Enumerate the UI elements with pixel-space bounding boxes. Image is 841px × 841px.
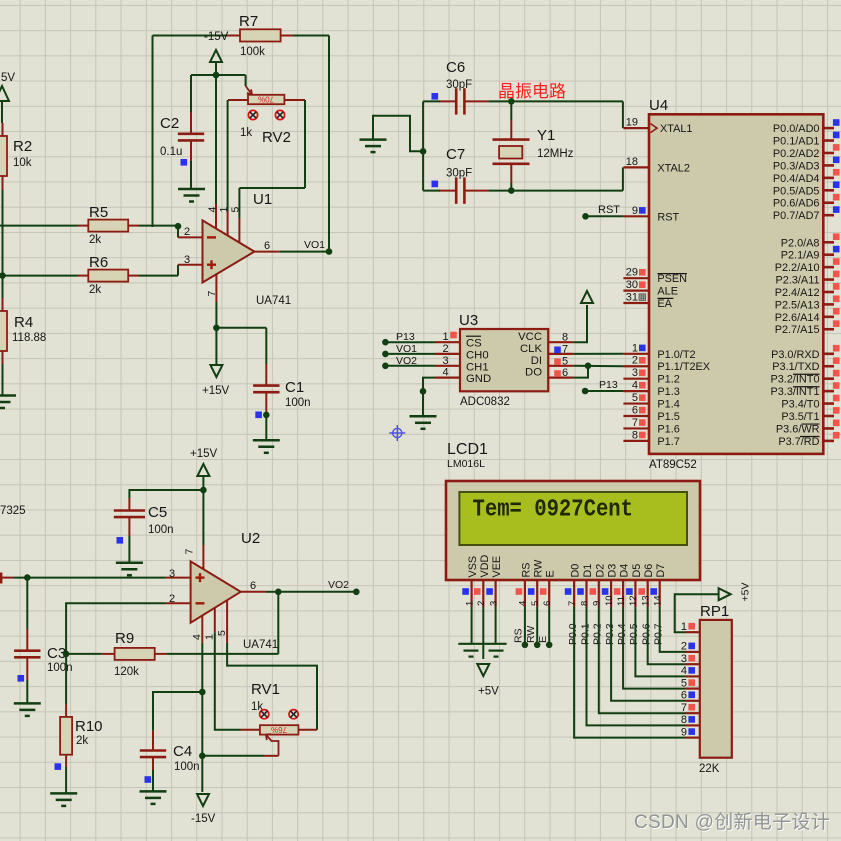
resistor R7 100k [227,29,293,41]
U3 pin 7 CLK [520,343,573,356]
svg-text:31: 31 [626,292,638,304]
svg-text:RST: RST [598,204,620,216]
svg-text:+15V: +15V [202,385,230,397]
svg-text:RP1: RP1 [700,603,729,620]
svg-text:2: 2 [632,355,638,367]
svg-text:3: 3 [681,653,687,665]
svg-text:P1.2: P1.2 [657,374,679,386]
svg-text:R5: R5 [89,204,108,221]
svg-text:E: E [545,570,557,577]
U4 pin P0.7/AD7 [773,206,840,222]
svg-text:4: 4 [681,665,687,677]
wire VO2 out [278,591,356,593]
wire RP1 pin1 to +5V [675,594,719,632]
MCU U4 AT89C52 body [649,114,823,454]
svg-text:4: 4 [207,207,219,213]
svg-text:D7: D7 [655,564,667,578]
svg-text:VEE: VEE [491,556,503,578]
wire wiper to pin4 net [202,755,264,757]
svg-text:70%: 70% [258,94,274,103]
svg-text:P0.4: P0.4 [616,623,628,645]
svg-text:P3.7/RD: P3.7/RD [778,436,819,448]
svg-text:CH1: CH1 [466,361,489,373]
svg-text:1: 1 [204,634,216,640]
svg-text:P0.1: P0.1 [579,623,591,645]
U4 pin 1 P1.0/T2 [623,342,695,361]
wire P13 to P1.3 [585,390,623,392]
svg-text:100n: 100n [47,662,73,674]
svg-text:1: 1 [464,601,475,606]
svg-text:12: 12 [628,595,639,606]
LCD pin 11 D4 [614,564,631,607]
resistor R4 118.88 (clipped) [0,298,7,364]
svg-text:9: 9 [632,205,638,217]
ground below C3 [14,703,41,716]
svg-text:RW: RW [533,559,545,578]
svg-text:8: 8 [632,429,638,441]
node VO2 U3 [382,363,389,370]
svg-text:P3.2/INT0: P3.2/INT0 [770,374,819,386]
svg-text:30: 30 [626,279,638,291]
wire jog to pin3 [177,265,179,276]
wire P13 to CS [385,341,435,343]
svg-text:U1: U1 [253,191,272,208]
wire RV2 wiper feed [245,75,247,86]
wire R7 left feedback net [153,35,228,37]
svg-text:CLK: CLK [520,343,542,355]
svg-text:DO: DO [525,367,542,379]
wire node to R9 [66,653,102,655]
resistor R6 2k [78,270,139,282]
svg-text:4: 4 [518,601,529,606]
node VO2 end [353,589,360,596]
RP1 pin 3 [681,653,700,665]
wire to U1 pin5 [238,188,240,218]
LCD LM016L body [446,481,700,580]
svg-text:118.88: 118.88 [12,332,46,344]
node junction -15V rail [213,72,220,79]
node junction R9/R10 [63,651,70,658]
node RST [582,213,589,220]
svg-text:29: 29 [626,267,638,279]
svg-text:7: 7 [184,549,196,555]
capacitor C4 100n [140,730,166,770]
svg-text:VCC: VCC [518,331,542,343]
svg-text:PSEN: PSEN [657,273,687,285]
svg-text:晶振电路: 晶振电路 [498,82,566,101]
U4 pin 31 EA [623,292,673,311]
svg-text:P3.5/T1: P3.5/T1 [781,411,819,423]
power +5V arrow (down) LCD [477,664,489,676]
node junction C3 tap [24,574,31,581]
wire XTAL1 drop [622,101,624,128]
svg-text:P0.0: P0.0 [567,623,579,645]
svg-text:RV1: RV1 [251,681,280,698]
U4 pin P0.1/AD1 [773,132,840,148]
svg-text:3: 3 [442,355,448,367]
wire pin2 net U2 [66,603,166,654]
node VO1 U3 [382,351,389,358]
svg-text:5: 5 [632,392,638,404]
svg-text:3: 3 [488,601,499,606]
svg-text:14: 14 [653,595,664,606]
U4 pin 19 XTAL1 [623,117,692,136]
svg-text:19: 19 [626,117,638,129]
svg-text:D5: D5 [631,564,643,578]
svg-text:100n: 100n [148,524,174,536]
svg-text:P0.3/AD3: P0.3/AD3 [773,160,820,172]
svg-text:RST: RST [657,211,679,223]
svg-text:P13: P13 [599,379,618,391]
power +15V arrow (down) U1 [210,365,222,377]
wire C6 left [423,100,440,102]
svg-text:12MHz: 12MHz [537,148,574,160]
svg-text:P0.4/AD4: P0.4/AD4 [773,173,820,185]
U4 pin P3.7/RD [778,432,839,448]
svg-text:9: 9 [592,601,603,606]
RP1 pin 6 [681,690,700,702]
U4 pin P3.1/TXD [772,357,839,373]
svg-text:2k: 2k [89,284,101,296]
LCD pin 14 D7 [650,564,667,607]
LCD pin 9 D2 [590,564,607,607]
U4 pin 9 RST [623,205,679,224]
U4 pin P2.5/A13 [775,296,840,312]
svg-text:P1.0/T2: P1.0/T2 [657,349,695,361]
wire R5 to pin2 node [139,225,178,227]
svg-text:100n: 100n [174,761,200,773]
svg-text:1k: 1k [240,127,252,139]
svg-text:D6: D6 [643,564,655,578]
svg-text:P3.3/INT1: P3.3/INT1 [770,386,819,398]
svg-text:7: 7 [681,702,687,714]
U4 pin P3.3/INT1 [770,382,839,398]
svg-text:2k: 2k [76,735,88,747]
ground below C5 [116,563,143,576]
svg-text:P2.7/A15: P2.7/A15 [775,324,820,336]
wire rail to C5 [129,490,203,498]
wire U1 pin4 supply [215,75,217,204]
wire RS stub [524,607,526,645]
svg-text:8: 8 [562,332,568,344]
node RW [534,642,541,649]
potentiometer RV1 1k [241,725,318,756]
wire U2 pin5 to RV1 right [227,643,317,730]
svg-text:P1.5: P1.5 [657,411,679,423]
node junction C4 tap [199,689,206,696]
node RS [522,642,529,649]
U4 pin P2.0/A8 [781,233,840,249]
svg-text:CH0: CH0 [466,349,489,361]
svg-text:D0: D0 [570,564,582,578]
U4 pin 4 P1.3 [623,380,679,399]
svg-text:120k: 120k [114,666,139,678]
U4 pin P3.2/INT0 [770,370,839,386]
U3 pin 6 DO [525,367,573,380]
ground below C2 [178,189,205,202]
svg-text:R7: R7 [239,13,258,30]
wire R10 to ground [65,767,67,793]
wire CLK to P1.0 [573,353,623,355]
LCD pin 4 RS [516,563,533,607]
svg-text:P2.5/A13: P2.5/A13 [775,299,820,311]
wire caps left vertical [422,101,424,190]
svg-text:P0.7/AD7: P0.7/AD7 [773,210,820,222]
node junction XTAL1 net [508,98,515,105]
power +5V arrow U3 [581,291,593,303]
wire VO2 to CH1 [385,365,435,367]
svg-text:RV2: RV2 [262,129,291,146]
LCD pin 7 D0 [565,564,582,607]
svg-text:C5: C5 [148,504,167,521]
svg-text:P0.5: P0.5 [628,623,640,645]
wire jog to pin2 [177,226,179,238]
svg-text:13: 13 [641,595,652,606]
RP1 pin 9 [681,726,700,738]
wire R5 input [0,225,78,227]
wire P0.0 data line [574,607,685,738]
svg-text:3: 3 [632,367,638,379]
RV1 terminal circle right [289,710,298,719]
svg-text:RS: RS [520,563,532,578]
svg-text:22K: 22K [699,763,720,775]
power 5V arrow [0,86,9,101]
wire DO loop [573,366,588,378]
svg-text:1: 1 [218,207,230,213]
svg-text:P0.7: P0.7 [653,623,665,645]
resistor R2 10k (clipped) [0,123,7,190]
wire RST to U4 [586,215,624,217]
wire VO2 feedback vertical [277,592,279,654]
svg-text:P0.6/AD6: P0.6/AD6 [773,198,820,210]
wire R6 input [2,275,78,277]
wire R2 to R4 [2,190,4,298]
svg-text:7: 7 [206,291,218,297]
svg-text:5: 5 [216,630,228,636]
wire VSS to ground [471,607,473,644]
LCD pin 13 D6 [638,564,655,607]
svg-text:2: 2 [184,226,190,238]
ground below C1 [253,440,280,453]
node junction XTAL2 net [508,187,515,194]
wire sensor to pin3 [13,577,166,579]
svg-text:8: 8 [681,714,687,726]
svg-text:10: 10 [604,595,615,606]
svg-text:5: 5 [562,355,568,367]
U4 pin 29 PSEN [623,267,687,286]
svg-text:P3.4/T0: P3.4/T0 [781,399,819,411]
U4 pin 3 P1.2 [623,367,679,386]
U4 pin 8 P1.7 [623,429,679,448]
svg-text:P0.1/AD1: P0.1/AD1 [773,136,820,148]
svg-text:30pF: 30pF [446,79,472,91]
svg-text:2: 2 [681,641,687,653]
U4 pin P0.5/AD5 [773,181,840,197]
svg-text:100n: 100n [285,397,311,409]
ground below R4 (clipped) [0,396,16,409]
svg-text:GND: GND [466,373,491,385]
svg-text:D2: D2 [594,564,606,578]
wire VDD to +5V [482,607,484,660]
svg-text:11: 11 [616,596,627,606]
capacitor C7 30pF [439,177,488,203]
wire C1 top [265,328,267,364]
wire C2 top [190,75,192,112]
wire U2 pin7 [202,490,204,545]
resistor R9 120k [102,648,167,660]
wire P0.5 data line [635,607,685,677]
power +5V arrow (right) RP1 [719,588,731,600]
node junction pin2 net [175,223,182,230]
RP1 pin 2 [681,641,700,653]
U4 pin P0.6/AD6 [773,194,840,210]
svg-text:R9: R9 [115,630,134,647]
U3 pin 2 CH0 [435,343,489,362]
svg-text:5: 5 [530,601,541,606]
svg-text:4: 4 [442,367,448,379]
voltage marker square C5 [117,537,124,544]
svg-text:ALE: ALE [657,286,678,298]
svg-text:P0.2: P0.2 [592,623,604,645]
svg-text:P1.6: P1.6 [657,423,679,435]
wire C4 to ground [152,770,154,791]
svg-text:6: 6 [250,580,256,592]
RP1 pin 8 [681,714,700,726]
LCD screen [459,492,687,545]
U4 pin 5 P1.4 [623,392,679,411]
LCD pin 1 VSS [462,556,479,607]
wire -15V rail horizontal [191,74,246,76]
wire RV2 right down [304,100,306,188]
svg-text:4: 4 [191,634,203,640]
voltage marker square C3 [18,675,25,682]
svg-text:3: 3 [184,254,190,266]
svg-text:76%: 76% [271,725,287,734]
svg-text:C1: C1 [285,379,304,396]
U4 pin 2 P1.1/T2EX [623,355,710,374]
svg-text:1: 1 [442,331,448,343]
U4 pin 18 XTAL2 [623,156,690,175]
wire Y1 top [510,101,512,120]
ground LCD VSS/VEE [458,644,506,657]
wire +15V stem U1 [215,328,217,364]
wire C3 down [26,578,28,629]
capacitor C5 100n [114,498,145,536]
svg-text:Tem= 0927Cent: Tem= 0927Cent [473,497,634,524]
wire +15V stem U2 [202,476,204,490]
power -15V arrow (up) [210,50,222,62]
svg-text:4: 4 [632,380,638,392]
svg-text:100k: 100k [240,46,265,58]
svg-text:R4: R4 [14,314,33,331]
U4 pin 7 P1.6 [623,417,679,436]
U3 pin 4 GND [435,367,491,386]
power -15V arrow (down) U2 [197,794,209,806]
U3 pin 8 VCC [518,331,573,344]
LCD pin 8 D1 [577,564,594,607]
wire P0.2 data line [599,607,686,714]
wire DI to P1.1 [573,365,623,367]
svg-text:10k: 10k [13,157,32,169]
svg-text:VSS: VSS [467,556,479,578]
U4 pin P3.4/T0 [781,395,839,411]
U3 pin 1 CS marker square [450,332,457,339]
svg-text:R2: R2 [13,138,32,155]
wire C4 branch [153,692,202,730]
svg-text:D4: D4 [619,564,631,578]
wire C7 right to XTAL2 net [488,190,511,192]
svg-text:P2.4/A12: P2.4/A12 [775,287,820,299]
wire P0.6 data line [648,607,686,665]
U4 pin P0.3/AD3 [773,157,840,173]
node junction VO2 feedback [275,589,282,596]
svg-text:RS: RS [513,628,525,643]
wire feedback vertical to pin2 node [152,36,154,228]
node junction C1 bottom [263,412,270,419]
node junction pin7 [213,325,220,332]
wire U3 VCC to +5V [573,305,587,342]
node junction DI/DO [585,363,592,370]
wire U2 output [266,591,279,593]
svg-text:P1.3: P1.3 [657,386,679,398]
svg-text:P3.1/TXD: P3.1/TXD [772,361,819,373]
svg-text:7325: 7325 [0,505,26,517]
U4 pin 6 P1.5 [623,405,679,424]
wire Y1 bottom [510,183,512,191]
svg-text:R6: R6 [89,254,108,271]
op-amp U2 UA741 [166,545,266,643]
resistor pack RP1 body [700,620,732,758]
svg-text:5V: 5V [1,72,15,84]
voltage marker square C1 [255,412,262,419]
wire VO1 to CH0 [385,353,435,355]
voltage marker square C4 [145,776,152,783]
left clipped sensor pin stub [0,573,2,584]
svg-text:CS: CS [466,338,482,350]
node junction +15V rail U2 [200,487,207,494]
svg-text:E: E [537,636,549,643]
node junction R6 tap [0,272,6,279]
svg-text:7: 7 [567,601,578,606]
svg-text:R10: R10 [75,718,103,735]
U3 pin 5 DI [531,355,574,368]
wire pin7 to C1 [216,327,266,329]
LCD pin 5 RW [528,559,545,607]
svg-text:ADC0832: ADC0832 [460,396,510,408]
svg-text:Y1: Y1 [537,127,555,144]
node P13 U3 [382,339,389,346]
U4 pin P2.3/A11 [776,271,840,287]
U3 pin 1 CS [435,331,482,350]
svg-text:-15V: -15V [191,813,216,825]
svg-text:+15V: +15V [190,448,218,460]
U4 pin P3.6/WR [776,420,840,436]
svg-text:3: 3 [169,568,175,580]
svg-text:P0.3: P0.3 [604,623,616,645]
potentiometer RV2 1k [228,86,305,104]
svg-text:P3.6/WR: P3.6/WR [776,423,820,435]
svg-text:30pF: 30pF [446,168,472,180]
svg-text:5: 5 [230,207,242,213]
RV1 terminal circle left [260,710,269,719]
wire RV2 right horizontal [239,187,305,189]
wire vertical R7 right to VO1 [328,36,330,252]
svg-text:DI: DI [531,355,542,367]
svg-text:CSDN @创新电子设计: CSDN @创新电子设计 [634,811,830,833]
svg-text:P1.4: P1.4 [657,399,679,411]
svg-text:2k: 2k [89,234,101,246]
resistor R5 2k [78,220,139,232]
